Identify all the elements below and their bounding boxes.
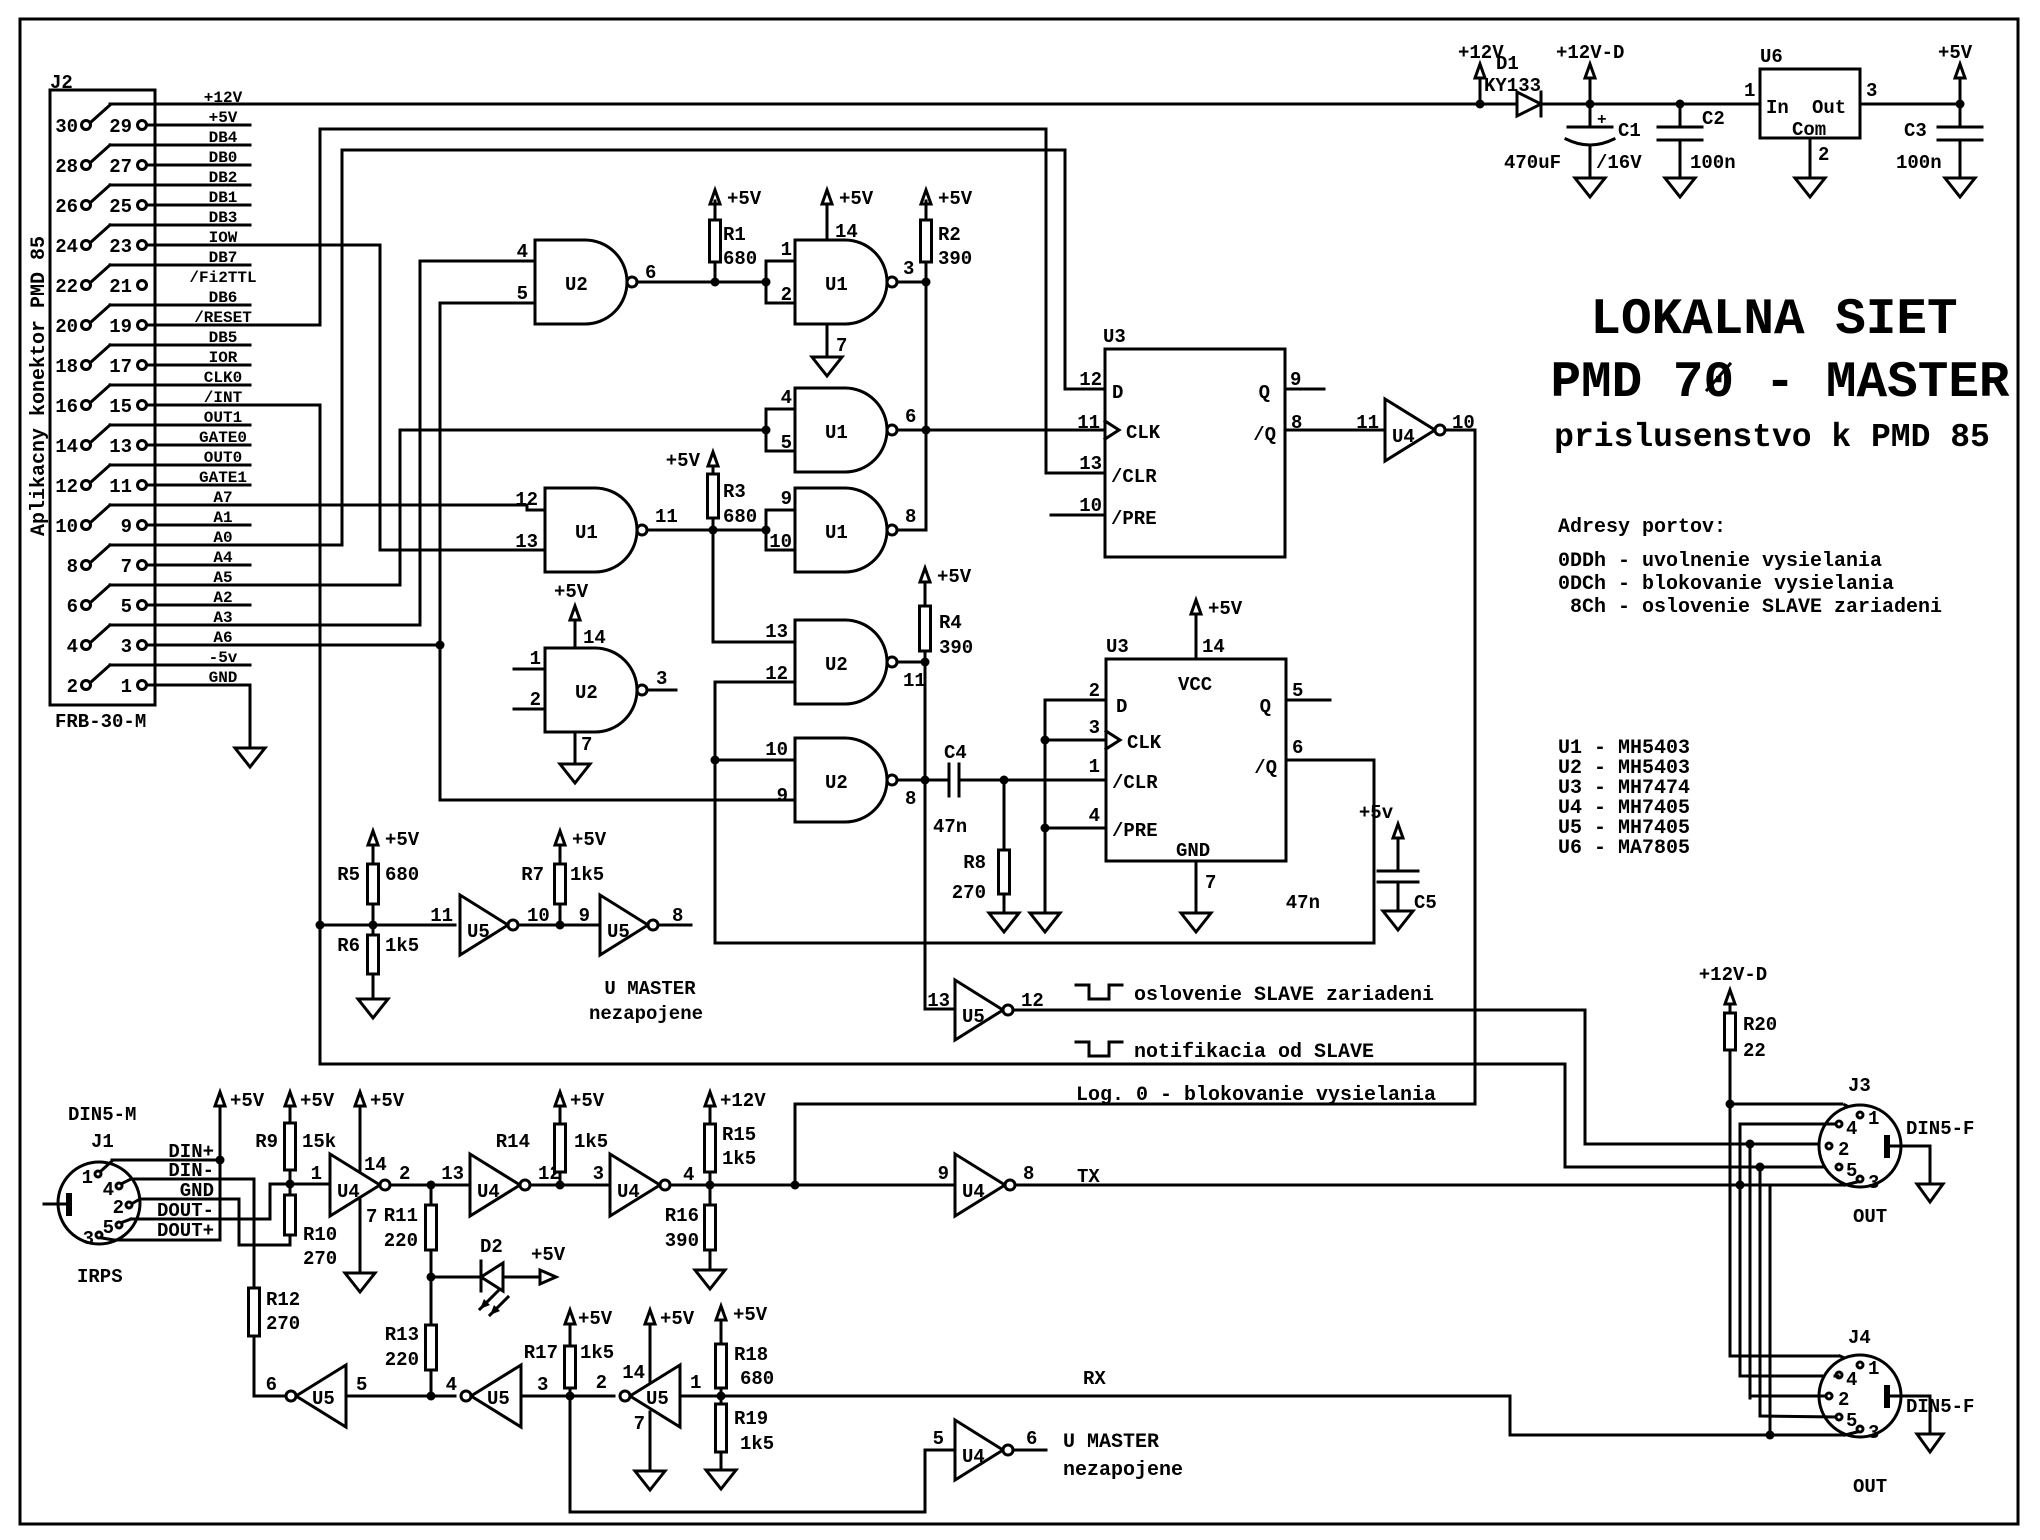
resistor R14 1k5 (496, 1090, 608, 1185)
svg-text:R2: R2 (938, 224, 961, 246)
capacitor C3 100n (1896, 104, 1982, 178)
ground symbol (U2 pin7) (560, 764, 590, 783)
svg-text:14: 14 (1202, 636, 1225, 658)
svg-text:TX: TX (1077, 1166, 1100, 1188)
svg-text:10: 10 (765, 739, 788, 761)
junction R14 (556, 1181, 565, 1190)
resistor R4 390 (920, 566, 974, 662)
resistor R1 680 (710, 188, 762, 282)
svg-text:FRB-30-M: FRB-30-M (55, 711, 146, 733)
junction pin10 tie (711, 756, 720, 765)
diode D1 KY133 (1480, 53, 1590, 116)
ground symbol (U5 pin7) (635, 1471, 665, 1490)
J2 pin 7 (121, 556, 147, 578)
svg-text:2: 2 (1838, 1389, 1849, 1411)
U3 pin2/3/4 ground tie (1045, 700, 1106, 913)
svg-text:U1: U1 (575, 522, 598, 544)
svg-text:5: 5 (517, 283, 528, 305)
wire J3 pin3 diag (1845, 1182, 1857, 1185)
ground symbol (C3) (1945, 178, 1975, 197)
svg-text:25: 25 (109, 196, 132, 218)
J2 pin 20 (55, 316, 90, 338)
svg-text:U1: U1 (825, 274, 848, 296)
svg-text:470uF: 470uF (1504, 152, 1561, 174)
svg-text:18: 18 (55, 356, 78, 378)
svg-text:6: 6 (905, 406, 916, 428)
ground symbol (J4) (1917, 1434, 1943, 1452)
ground symbol (C1) (1575, 178, 1605, 197)
svg-text:270: 270 (952, 882, 986, 904)
wire DB0 (J2) (209, 149, 238, 167)
wire GATE1 stub (147, 484, 250, 487)
junction C1 (1586, 100, 1595, 109)
svg-text:DIN5-F: DIN5-F (1906, 1118, 1974, 1140)
junction out8/C4 (921, 776, 930, 785)
svg-text:1: 1 (311, 1163, 322, 1185)
power arrow +5V (regulator output) (1938, 42, 1973, 104)
junction A5/bracket (762, 426, 771, 435)
svg-text:+5V: +5V (300, 1090, 335, 1112)
wire /RESET to U3 /CLR (147, 129, 1105, 473)
ground symbol (R8) (989, 913, 1019, 932)
svg-text:+: + (1597, 111, 1607, 129)
wire J3 pin5 vertical (1759, 1167, 1762, 1416)
svg-text:U3: U3 (1106, 636, 1129, 658)
svg-text:R5: R5 (337, 864, 360, 886)
wire RX row to R18/R19 (680, 1395, 721, 1398)
J2 pin 14 (55, 436, 90, 458)
svg-text:9: 9 (121, 516, 132, 538)
svg-text:U2: U2 (825, 654, 848, 676)
J2 pin 3 (121, 636, 147, 658)
wire GATE1 (J2) (199, 469, 247, 487)
junction RX bus (1766, 1431, 1775, 1440)
wire OUT1 (J2) (91, 409, 242, 442)
wire out11 net down to U5 in 13 (925, 662, 955, 1009)
inverter U4 (pins 3 out 4) (593, 1154, 695, 1216)
ground symbol (U4 pin7) (345, 1273, 375, 1292)
svg-text:9: 9 (579, 905, 590, 927)
wire U2 out 11 (897, 661, 925, 664)
wire GND stub (147, 684, 250, 687)
U3 pin10 /PRE stub (1051, 514, 1105, 517)
wire +5V (J2) (209, 109, 238, 127)
svg-text:+12V-D: +12V-D (1556, 42, 1624, 64)
ground symbol (J2 GND) (235, 748, 265, 767)
wire U1 out 6 to U3 CLK (897, 429, 1105, 432)
J1 pin 4 (103, 1179, 122, 1201)
J2 pin 2 (67, 676, 91, 698)
resistor R20 22 (1725, 1013, 1778, 1104)
svg-text:/PRE: /PRE (1112, 820, 1158, 842)
svg-text:1k5: 1k5 (722, 1148, 756, 1170)
wire A2 (J2) (213, 589, 232, 607)
svg-text:270: 270 (303, 1248, 337, 1270)
resistor R13 220 (385, 1250, 437, 1396)
svg-text:GND: GND (1176, 840, 1210, 862)
svg-text:8: 8 (67, 556, 78, 578)
svg-text:9: 9 (781, 488, 792, 510)
wire A2 stub (147, 604, 250, 607)
wire +12V rail to power section (110, 103, 1480, 106)
ground symbol (J3) (1917, 1184, 1943, 1202)
svg-text:3: 3 (1868, 1422, 1879, 1444)
wire A6 (J2) (213, 629, 232, 647)
J2 pin 1 (121, 676, 147, 698)
ground symbol (C5) (1383, 911, 1413, 930)
svg-text:oslovenie SLAVE zariadeni: oslovenie SLAVE zariadeni (1134, 984, 1434, 1007)
wire DB3 stub (110, 224, 250, 227)
junction R9/R10/DOUT- (286, 1180, 295, 1189)
svg-text:27: 27 (109, 156, 132, 178)
svg-text:15: 15 (109, 396, 132, 418)
nand gate U1 (pins 9,10 out 8) (766, 488, 897, 572)
svg-text:7: 7 (836, 335, 847, 357)
svg-text:2: 2 (596, 1372, 607, 1394)
svg-text:R13: R13 (385, 1324, 419, 1346)
wire DB6 (J2) (91, 289, 237, 322)
junction R11 (427, 1181, 436, 1190)
wire A4 stub (147, 564, 250, 567)
wire U2 pin12/pin10 tie to /Q net (715, 682, 1374, 943)
svg-text:4: 4 (446, 1374, 457, 1396)
resistor R16 390 (665, 1185, 716, 1270)
svg-text:R18: R18 (734, 1344, 768, 1366)
power arrow +12V (1458, 42, 1504, 104)
wire -5v stub (110, 664, 250, 667)
svg-text:12: 12 (1079, 369, 1102, 391)
svg-text:2: 2 (113, 1197, 124, 1219)
svg-text:+5V: +5V (570, 1090, 605, 1112)
wire U2 out 8 (897, 779, 925, 782)
J4 pin 1 (1857, 1358, 1879, 1380)
svg-text:+5V: +5V (370, 1090, 405, 1112)
capacitor C5 47n decoupling (1286, 802, 1437, 914)
svg-text:11: 11 (430, 905, 453, 927)
svg-text:R3: R3 (723, 481, 746, 503)
svg-text:U1: U1 (825, 522, 848, 544)
wire R20 to J3 pin1 and J4 pin1 (1730, 1104, 1856, 1363)
ground symbol (R19) (706, 1470, 736, 1489)
wire A4 (J2) (213, 549, 233, 567)
svg-text:23: 23 (109, 236, 132, 258)
svg-text:+5V: +5V (733, 1304, 768, 1326)
wire J4 pin5 entry (1760, 1416, 1835, 1417)
wire A1 (J2) (213, 509, 232, 527)
svg-text:10: 10 (769, 531, 792, 553)
J1 pin 2 (113, 1197, 132, 1219)
J4 pin 5 (1836, 1410, 1857, 1432)
wire out11 net down to U2 pin13 (713, 530, 795, 642)
resistor R2 390 (921, 188, 973, 281)
svg-text:2: 2 (67, 676, 78, 698)
svg-text:4: 4 (1089, 805, 1100, 827)
wire OUT1 stub (110, 424, 250, 427)
inverter U4 (pins 5 out 6) unused (933, 1420, 1038, 1480)
title zero slash (1707, 364, 1730, 390)
wire U4 out 2 (390, 1184, 470, 1187)
nand gate U1 (pins 12,13 out 11) (515, 488, 647, 572)
svg-text:Log. 0 - blokovanie vysielania: Log. 0 - blokovanie vysielania (1076, 1084, 1436, 1107)
svg-text:8: 8 (905, 506, 916, 528)
wire IOR stub (147, 364, 250, 367)
svg-text:24: 24 (55, 236, 78, 258)
resistor R10 270 (285, 1184, 338, 1270)
J1 pin 1 (82, 1167, 101, 1189)
svg-text:R12: R12 (266, 1289, 300, 1311)
wire J3 pin1 diag2 (1841, 1103, 1844, 1106)
resistor R18 680 (716, 1304, 775, 1396)
wire A0 (J2) (91, 529, 233, 562)
svg-text:7: 7 (581, 734, 592, 756)
junction pin3 tie (1041, 736, 1050, 745)
svg-text:J3: J3 (1848, 1075, 1871, 1097)
ground symbol (U1 pin7) (812, 357, 842, 376)
svg-text:26: 26 (55, 196, 78, 218)
wire RX row 5-4 (346, 1395, 455, 1398)
J2 pin 16 (55, 396, 90, 418)
inverter U4 (pins 9 out 8) TX driver (938, 1154, 1035, 1216)
svg-text:3: 3 (537, 1374, 548, 1396)
svg-text:1: 1 (1089, 756, 1100, 778)
junction Log.0/TX (791, 1181, 800, 1190)
resistor R15 1k5 (705, 1090, 767, 1185)
svg-text:1k5: 1k5 (574, 1131, 608, 1153)
svg-text:+5V: +5V (938, 188, 973, 210)
capacitor C2 100n (1658, 104, 1736, 178)
svg-text:11: 11 (1356, 412, 1379, 434)
svg-text:22: 22 (1743, 1040, 1766, 1062)
svg-text:16: 16 (55, 396, 78, 418)
wire U6 out (1860, 103, 1960, 106)
wire +5V stub (147, 124, 250, 127)
power arrow +12V-D (R20) (1699, 964, 1767, 1013)
svg-text:12: 12 (55, 476, 78, 498)
svg-text:J4: J4 (1848, 1327, 1871, 1349)
J2 pin 17 (109, 356, 146, 378)
svg-text:7: 7 (1205, 872, 1216, 894)
junction U1 input bracket (762, 278, 771, 287)
wire DB4 stub (110, 144, 250, 147)
wire IOW (J2) (209, 229, 238, 247)
wire U1 out 8 up to CLK net (897, 506, 926, 530)
svg-text:U5: U5 (646, 1388, 669, 1410)
svg-text:J2: J2 (50, 72, 73, 94)
svg-text:7: 7 (366, 1206, 377, 1228)
junction R17 (566, 1392, 575, 1401)
wire U1 out 11 to U1 in (647, 529, 766, 532)
svg-text:9: 9 (777, 785, 788, 807)
svg-text:7: 7 (121, 556, 132, 578)
J3 pin 1 (1857, 1108, 1879, 1130)
svg-text:6: 6 (1026, 1428, 1037, 1450)
svg-text:U MASTER: U MASTER (1063, 1431, 1159, 1454)
J3 ground (1890, 1146, 1930, 1184)
nand gate U2 (pins 13,12 out 11) (765, 620, 897, 704)
wire /Fi2TTL (J2) (189, 269, 256, 287)
svg-text:+5v: +5v (1359, 802, 1394, 824)
svg-text:U1: U1 (825, 422, 848, 444)
wire U1 out 3 (897, 281, 926, 284)
wire CLK0 stub (110, 384, 250, 387)
nand gate U2 (pins 4,5 out 6) (517, 240, 637, 324)
svg-text:5: 5 (103, 1217, 114, 1239)
svg-text:U4: U4 (337, 1181, 360, 1203)
resistor R11 220 (384, 1185, 437, 1252)
wire CLK0 (J2) (91, 369, 242, 402)
J1 pin 3 (83, 1228, 102, 1250)
wire GATE0 (J2) (199, 429, 247, 447)
svg-text:VCC: VCC (1178, 674, 1212, 696)
svg-text:OUT: OUT (1853, 1476, 1887, 1498)
svg-text:+5V: +5V (578, 1308, 613, 1330)
U1 pin14 power (822, 188, 874, 243)
svg-text:7: 7 (634, 1413, 645, 1435)
resistor R6 1k5 (337, 925, 419, 999)
wire DB2 stub (110, 184, 250, 187)
svg-text:/Q: /Q (1253, 424, 1276, 446)
svg-text:Adresy portov:: Adresy portov: (1558, 516, 1726, 539)
wire DB0 stub (147, 164, 250, 167)
svg-text:1k5: 1k5 (570, 864, 604, 886)
svg-text:U4: U4 (477, 1181, 500, 1203)
waveform symbol notifikacia (1076, 1042, 1122, 1056)
J2 pin 24 (55, 236, 90, 258)
wire U2 out 6 to U1 in (637, 281, 766, 284)
wire A0 to U3 D input (110, 150, 1105, 545)
svg-text:U5: U5 (607, 921, 630, 943)
wire A3 to U2 pin4 (110, 261, 535, 625)
wire DB6 stub (110, 304, 250, 307)
wire /INT down-left column (147, 405, 320, 1064)
text U MASTER nezapojene (upper) (589, 978, 703, 1025)
svg-text:U5: U5 (962, 1006, 985, 1028)
svg-text:30: 30 (55, 116, 78, 138)
svg-text:680: 680 (385, 864, 419, 886)
svg-text:220: 220 (385, 1349, 419, 1371)
J4 ground (1890, 1396, 1930, 1434)
svg-text:14: 14 (364, 1154, 387, 1176)
wire DOUT+ to +5V net (102, 1160, 220, 1242)
J2 pin 18 (55, 356, 90, 378)
wire DB3 (J2) (91, 209, 237, 242)
text Adresy portov (1558, 516, 1942, 619)
svg-text:+5V: +5V (572, 829, 607, 851)
wire U5 out 6 to R12 (254, 1395, 286, 1398)
svg-text:13: 13 (515, 531, 538, 553)
svg-text:13: 13 (441, 1163, 464, 1185)
svg-text:4: 4 (781, 387, 792, 409)
svg-text:11: 11 (655, 506, 678, 528)
svg-text:D: D (1116, 696, 1127, 718)
svg-text:/PRE: /PRE (1111, 508, 1157, 530)
J3 pin 5 (1836, 1160, 1857, 1182)
svg-text:1: 1 (82, 1167, 93, 1189)
wire IOR (J2) (209, 349, 238, 367)
svg-text:+12V-D: +12V-D (1699, 964, 1767, 986)
wire DB2 (J2) (91, 169, 237, 202)
nand gate U2 (pins 10,9 out 8) (765, 738, 897, 822)
wire Log.0 line to TX (795, 1104, 1475, 1185)
wire U4 out 10 down to Log.0 line (1445, 430, 1475, 1104)
svg-text:KY133: KY133 (1484, 75, 1541, 97)
wire TX to J3/J4 pin3 (1015, 1166, 1843, 1188)
svg-text:270: 270 (266, 1313, 300, 1335)
svg-text:4: 4 (683, 1164, 694, 1186)
svg-text:3: 3 (903, 258, 914, 280)
wire DB1 (J2) (209, 189, 238, 207)
J2 pin 30 (55, 116, 90, 138)
svg-text:2: 2 (1838, 1139, 1849, 1161)
svg-text:13: 13 (765, 621, 788, 643)
wire U4 out 12 (530, 1184, 610, 1187)
svg-text:U4: U4 (962, 1446, 985, 1468)
wire J3 pin4 bus (1740, 1124, 1835, 1376)
wire C4 to U3 /CLR (1004, 779, 1110, 782)
wire J4 pin2 entry (1750, 1395, 1825, 1398)
svg-text:/CLR: /CLR (1112, 772, 1158, 794)
wire DIN- to R12 (123, 1160, 254, 1288)
svg-text:5: 5 (1292, 680, 1303, 702)
svg-text:D2: D2 (480, 1236, 503, 1258)
svg-text:nezapojene: nezapojene (589, 1003, 703, 1025)
svg-text:Aplikacny konektor PMD 85: Aplikacny konektor PMD 85 (28, 236, 51, 536)
svg-text:C2: C2 (1702, 108, 1725, 130)
U3 pin8 /Q to U4 (1285, 412, 1385, 434)
resistor R12 270 (249, 1288, 301, 1396)
resistor R19 1k5 (716, 1396, 775, 1470)
svg-text:+5V: +5V (666, 450, 701, 472)
wire DB7 stub (110, 264, 250, 267)
inverter U4 (pins 1 out 2) (311, 1090, 405, 1273)
junction J3 pin2 bus (1746, 1140, 1755, 1149)
svg-text:1: 1 (690, 1372, 701, 1394)
J3 pin 3 (1857, 1172, 1879, 1194)
wire J4 pin4 entry (1835, 1375, 1838, 1378)
J2 pin 29 (109, 116, 146, 138)
text U MASTER nezapojene (lower) (1063, 1431, 1183, 1482)
svg-text:1: 1 (530, 648, 541, 670)
svg-text:1k5: 1k5 (580, 1342, 614, 1364)
svg-text:C4: C4 (944, 742, 967, 764)
J2 pin 26 (55, 196, 90, 218)
U2 pin7 ground (575, 732, 592, 764)
wire A3 (J2) (91, 609, 233, 642)
J2 pin 22 (55, 276, 90, 298)
svg-text:+12V: +12V (720, 1090, 766, 1112)
svg-text:3: 3 (1089, 717, 1100, 739)
svg-text:+5V: +5V (727, 188, 762, 210)
wire J3 pin2 vertical (1749, 1144, 1752, 1398)
svg-text:D: D (1112, 382, 1123, 404)
J4 pin 2 (1826, 1389, 1849, 1411)
J2 pin 5 (121, 596, 147, 618)
svg-text:12: 12 (515, 489, 538, 511)
J2 pin 25 (109, 196, 146, 218)
inverter U4 (pins 11 out 10) (1356, 399, 1475, 461)
ground symbol (C2) (1665, 178, 1695, 197)
J4 pin 3 (1857, 1422, 1879, 1444)
svg-text:22: 22 (55, 276, 78, 298)
svg-text:5: 5 (781, 432, 792, 454)
svg-text:2: 2 (1818, 144, 1829, 166)
svg-text:14: 14 (583, 627, 606, 649)
svg-text:DIN5-M: DIN5-M (68, 1104, 136, 1126)
inverter U5 (pins 13 out 12) (927, 980, 1044, 1040)
wire U4 out 4 TX line (670, 1184, 955, 1187)
wire A5 (J2) (91, 569, 233, 602)
svg-text:680: 680 (740, 1368, 774, 1390)
